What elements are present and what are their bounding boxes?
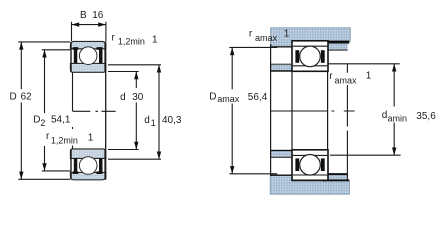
dimension Damax: dimension line with arrows	[230, 47, 234, 173]
dimension d: extension lines	[108, 72, 139, 150]
label r 1,2min 1 (bottom)	[46, 131, 94, 146]
outer ring bottom half	[70, 172, 105, 179]
label r 1,2min 1 (top)	[112, 32, 159, 46]
bore corner leader line left	[72, 72, 74, 149]
bearing box top half (right view)	[292, 41, 328, 72]
inner ring top half	[70, 63, 105, 72]
svg-text:amin: amin	[388, 113, 408, 123]
svg-text:D: D	[10, 91, 17, 102]
label D2 54,1	[33, 115, 71, 128]
dimension damin: dimension line with arrows	[392, 64, 396, 155]
dimension D: extension lines	[18, 42, 70, 179]
svg-text:B: B	[80, 10, 87, 21]
dimension D2: dimension line with arrows	[42, 50, 46, 171]
bearing side walls bottom half	[71, 149, 105, 179]
shaft left face line	[270, 44, 272, 176]
outer ring race line top	[293, 45, 328, 47]
dimension D: dimension line with arrows	[19, 42, 23, 179]
svg-text:1: 1	[152, 35, 158, 46]
svg-text:amax: amax	[255, 33, 278, 43]
housing top band with shoulder step	[271, 28, 351, 47]
axis centerline left view	[73, 110, 116, 112]
label r amax 1 (bottom right)	[329, 70, 372, 85]
shaft shoulder top left	[271, 64, 292, 72]
svg-text:D: D	[209, 92, 216, 103]
ball top (right view)	[300, 46, 321, 67]
dimension d: dimension line with arrows	[134, 72, 138, 150]
label r amax 1 (top)	[249, 28, 290, 43]
bearing side walls top half	[71, 42, 105, 72]
housing shoulder strip top right	[326, 44, 348, 51]
inner ring bottom half	[70, 149, 105, 159]
shield left (top half)	[73, 47, 79, 63]
dimension B: dimension line with arrows	[72, 22, 106, 26]
dimension Damax: extension lines	[229, 47, 277, 173]
label B 16	[80, 10, 104, 21]
svg-text:30: 30	[132, 92, 144, 103]
label d1 40,3	[144, 115, 182, 128]
housing bottom band with shoulder step	[270, 175, 349, 194]
label D 62	[10, 91, 33, 102]
svg-text:56,4: 56,4	[248, 92, 268, 103]
svg-text:62: 62	[21, 91, 33, 102]
shaft shoulder bottom left	[271, 150, 292, 158]
svg-text:1: 1	[88, 133, 94, 144]
dimension d1: extension lines	[108, 65, 161, 159]
svg-text:54,1: 54,1	[51, 115, 71, 126]
svg-text:1,2min: 1,2min	[51, 135, 78, 145]
label damin 35,6	[382, 110, 436, 123]
bearing right edge line spanning the gap	[105, 41, 107, 179]
svg-text:amax: amax	[335, 75, 358, 85]
shield bars bottom (right view)	[295, 158, 324, 171]
bearing edge gap lines (right view)	[292, 71, 328, 149]
svg-text:1: 1	[151, 118, 156, 128]
shield bars top (right view)	[295, 50, 324, 63]
label Damax 56,4	[209, 92, 268, 104]
svg-text:1: 1	[284, 28, 290, 39]
svg-text:d: d	[144, 115, 150, 126]
svg-text:1,2min: 1,2min	[118, 36, 145, 46]
svg-text:35,6: 35,6	[416, 111, 436, 122]
housing bore line top (thick, continues right of bearing)	[325, 41, 350, 44]
bearing box bottom half (right view)	[292, 150, 328, 181]
ball top half	[79, 47, 97, 65]
svg-text:40,3: 40,3	[162, 115, 182, 126]
ball bottom half	[79, 157, 97, 175]
inner ring race line bottom	[293, 154, 328, 156]
dimension D2: extension lines	[42, 50, 70, 171]
dimension B: extension lines	[72, 22, 106, 41]
ball bottom (right view)	[300, 155, 321, 176]
axis centerline right view	[271, 110, 355, 112]
svg-text:d: d	[120, 92, 126, 103]
shield right (bottom half)	[96, 158, 102, 174]
svg-text:amax: amax	[217, 94, 240, 104]
dimension d1: dimension line with arrows	[157, 65, 161, 159]
inner ring race line top	[293, 65, 328, 67]
svg-text:1: 1	[366, 70, 372, 81]
shield right (top half)	[96, 47, 102, 63]
housing shoulder strip bottom right	[326, 173, 347, 179]
svg-text:16: 16	[92, 10, 104, 21]
outer ring race line bottom	[293, 174, 328, 176]
label d 30	[120, 92, 144, 103]
svg-text:2: 2	[40, 118, 45, 128]
housing bore line bottom (thick)	[322, 179, 349, 181]
shaft right end line	[346, 64, 348, 180]
outer ring top half	[70, 41, 105, 48]
shield left (bottom half)	[73, 158, 79, 174]
dimension damin: extension lines	[328, 64, 400, 155]
